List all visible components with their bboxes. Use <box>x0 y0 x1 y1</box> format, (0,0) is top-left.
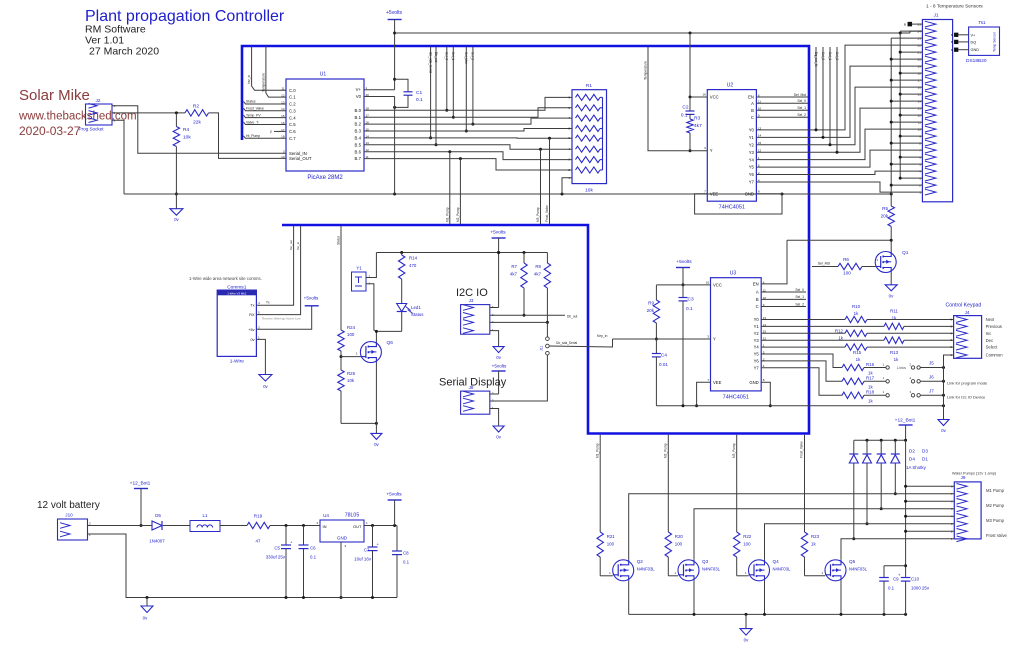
svg-text:I2c_sda_Serial: I2c_sda_Serial <box>556 341 577 345</box>
wire Q4 drain rail <box>765 524 955 560</box>
svg-text:GND: GND <box>749 380 758 385</box>
resistor R2 <box>185 104 209 126</box>
wire I2c_sda_Serial riser <box>428 47 432 139</box>
diode D1 <box>891 440 900 495</box>
svg-text:Links: Links <box>897 366 906 370</box>
resistor R13 <box>884 337 904 362</box>
wire J2 pin3 to ground rail <box>112 120 124 194</box>
svg-text:VEE: VEE <box>710 191 719 196</box>
svg-text:Sel_1: Sel_1 <box>451 52 455 60</box>
svg-text:J7: J7 <box>929 388 934 393</box>
svg-text:J8: J8 <box>469 385 474 390</box>
svg-text:1: 1 <box>821 571 823 575</box>
ground pumps <box>740 614 752 642</box>
svg-text:Y7: Y7 <box>749 180 755 185</box>
svg-text:47: 47 <box>256 539 261 544</box>
resistor R19 <box>247 514 270 544</box>
wire keypad row2 <box>904 325 954 327</box>
multiplexer U2 74HC4051 <box>702 83 761 211</box>
svg-text:7: 7 <box>707 378 709 382</box>
svg-text:B.1: B.1 <box>355 115 362 120</box>
resistor R22 <box>734 532 752 576</box>
svg-text:N4NF03L: N4NF03L <box>849 567 868 572</box>
wire U2 Sel_1 <box>756 106 808 110</box>
transistor Q5 <box>821 559 867 581</box>
svg-text:Previous: Previous <box>986 324 1002 329</box>
svg-text:R16: R16 <box>866 362 875 367</box>
svg-text:Y3: Y3 <box>749 150 755 155</box>
resistor R3 <box>687 114 702 152</box>
bus main <box>242 46 809 434</box>
svg-text:C: C <box>756 304 759 309</box>
svg-text:3: 3 <box>707 335 709 339</box>
svg-text:D5: D5 <box>155 513 161 518</box>
wire B.3 to R1 <box>364 129 572 132</box>
wire B.6 to R1 <box>364 150 572 159</box>
author website <box>18 111 137 123</box>
power +5volts i2c <box>490 230 506 308</box>
svg-text:Y: Y <box>710 148 713 153</box>
diode D2 <box>849 440 858 540</box>
svg-text:Db_out: Db_out <box>434 52 438 62</box>
svg-text:1: 1 <box>356 352 358 356</box>
svg-text:1A Shotky: 1A Shotky <box>906 465 927 470</box>
svg-text:0.1: 0.1 <box>310 555 317 560</box>
svg-text:1: 1 <box>609 571 611 575</box>
svg-text:100: 100 <box>607 542 615 547</box>
svg-text:R10: R10 <box>852 304 861 309</box>
wire U3 Y4 to keypad <box>761 346 845 348</box>
svg-text:B.6: B.6 <box>355 149 362 154</box>
svg-text:Status: Status <box>246 100 256 104</box>
svg-text:R11: R11 <box>890 309 898 314</box>
author Solar Mike <box>19 87 90 104</box>
wire Q3 drain rail <box>694 509 954 560</box>
svg-text:Serial_OUT: Serial_OUT <box>289 156 312 161</box>
svg-text:1: 1 <box>674 571 676 575</box>
svg-text:Inc: Inc <box>986 331 992 336</box>
power +12_Batt1 right <box>895 418 916 441</box>
wire bus label Sel_2 <box>835 47 839 154</box>
svg-text:C8: C8 <box>403 551 409 556</box>
svg-text:M1_Pump: M1_Pump <box>445 207 449 222</box>
wire Sel_1 riser <box>451 47 455 119</box>
svg-text:Y5: Y5 <box>749 165 755 170</box>
resistor R6 <box>812 257 875 276</box>
svg-text:J6: J6 <box>929 374 934 379</box>
diode D4 <box>863 440 872 525</box>
capacitor C3 <box>679 285 694 406</box>
wire bus label Dq_sel_M <box>814 47 818 131</box>
svg-text:Sel_1: Sel_1 <box>795 295 804 299</box>
svg-text:0.1: 0.1 <box>681 113 688 119</box>
svg-text:0v: 0v <box>263 384 268 389</box>
resistor R11 <box>884 309 904 330</box>
svg-text:Sel_Mst: Sel_Mst <box>794 93 806 97</box>
svg-text:0.1: 0.1 <box>686 306 693 312</box>
svg-text:M3 Pump: M3 Pump <box>986 518 1005 523</box>
svg-text:2: 2 <box>909 376 911 380</box>
svg-text:1: 1 <box>366 521 368 525</box>
resistor R5 <box>881 194 895 240</box>
svg-text:C5: C5 <box>274 546 280 551</box>
svg-text:B: B <box>751 108 754 113</box>
svg-text:R7: R7 <box>511 264 517 269</box>
wire keypad row1 <box>867 319 954 321</box>
label Control Keypad <box>946 303 982 309</box>
wire Y1 pin2 to +5 <box>366 253 376 278</box>
svg-text:B.4: B.4 <box>355 136 362 141</box>
svg-text:hsr_in: hsr_in <box>247 75 251 84</box>
jumper J11 <box>540 322 550 355</box>
connector J8 Serial Display <box>461 385 494 414</box>
capacitor C9 <box>879 566 905 615</box>
wire U3 Sel_0 <box>761 288 806 292</box>
svg-text:EN: EN <box>748 95 754 100</box>
resistor R20 <box>665 532 683 576</box>
svg-text:2: 2 <box>89 522 91 526</box>
svg-text:Sel_1: Sel_1 <box>828 52 832 60</box>
wire J2 pin2 to R2 <box>112 111 185 114</box>
svg-text:2: 2 <box>345 544 347 548</box>
svg-text:Next: Next <box>986 317 995 322</box>
wire C.1 from bus <box>261 46 286 97</box>
wire M1_Pump drop <box>445 152 450 224</box>
svg-text:Temperature: Temperature <box>643 61 647 80</box>
wire battery positive <box>88 525 153 527</box>
wire R19 to U4 <box>270 524 320 527</box>
label link i2c <box>947 395 986 400</box>
svg-text:C7: C7 <box>364 548 370 553</box>
svg-text:3: 3 <box>316 521 318 525</box>
svg-text:M3_Pump: M3_Pump <box>536 207 540 222</box>
svg-text:C: C <box>751 115 754 120</box>
svg-text:R12: R12 <box>835 329 844 334</box>
wire U3 Y2 to keypad <box>761 332 845 334</box>
wire Q6 source down <box>375 363 377 424</box>
resistor R15 <box>845 344 867 362</box>
subtitle date <box>89 46 159 58</box>
svg-text:Y4: Y4 <box>749 157 755 162</box>
svg-text:4k7: 4k7 <box>510 272 518 277</box>
svg-text:C.7: C.7 <box>289 136 296 141</box>
wire R2 to Serial_OUT <box>209 113 287 158</box>
label keypad Inc <box>986 331 992 336</box>
wire Frost_Valve drop <box>545 138 550 224</box>
svg-text:C10: C10 <box>911 577 920 582</box>
svg-text:RX: RX <box>249 313 255 317</box>
svg-text:R14: R14 <box>409 256 418 261</box>
wire Q4 source <box>764 581 766 615</box>
label Serial Display <box>439 377 507 389</box>
label temperature sensors <box>926 4 983 10</box>
svg-text:VCC: VCC <box>710 95 719 100</box>
diode D5 <box>149 513 165 544</box>
svg-text:1k: 1k <box>854 311 859 316</box>
wire U3 Y1 to keypad <box>761 325 884 327</box>
wire Comms1 Tx to bus <box>256 226 293 305</box>
svg-text:+5volts: +5volts <box>492 364 507 369</box>
svg-text:Link for program mode: Link for program mode <box>947 381 988 386</box>
svg-text:J2: J2 <box>96 98 101 103</box>
svg-text:Frost_Valve: Frost_Valve <box>800 441 804 458</box>
svg-text:B: B <box>951 48 953 52</box>
svg-text:+12_Bot1: +12_Bot1 <box>895 418 916 424</box>
svg-text:0.1: 0.1 <box>416 97 423 103</box>
ground under Q1 <box>885 273 897 299</box>
svg-text:Q2: Q2 <box>637 559 644 564</box>
label keypad Common <box>986 353 1004 358</box>
wire Valve_T- to C.5 <box>244 120 287 124</box>
svg-text:M1_Pump: M1_Pump <box>595 443 599 458</box>
svg-text:C.1: C.1 <box>289 95 296 100</box>
wire keypad row5 <box>867 346 954 348</box>
svg-text:10k: 10k <box>585 188 593 194</box>
svg-text:IN: IN <box>323 524 327 529</box>
svg-text:Temperature: Temperature <box>261 73 265 92</box>
wire U1 V+ <box>364 89 395 91</box>
wire keypad row3 <box>867 332 954 334</box>
svg-text:J1: J1 <box>934 13 939 18</box>
label I2C IO <box>456 287 488 299</box>
led Led1 Status <box>397 304 425 332</box>
svg-text:R18: R18 <box>866 390 875 395</box>
svg-text:C.6: C.6 <box>289 129 296 134</box>
wire Q5 source <box>840 581 842 615</box>
svg-text:J9: J9 <box>961 475 966 480</box>
svg-text:PicAxe 28M2: PicAxe 28M2 <box>307 175 343 181</box>
diode D3 <box>877 440 886 510</box>
svg-text:I2c_sda_Serial: I2c_sda_Serial <box>428 52 432 73</box>
label keypad Next <box>986 317 995 322</box>
svg-text:B.7: B.7 <box>355 156 362 161</box>
wire U2 Y5 to J1 <box>756 150 922 167</box>
power +5volts top <box>386 10 402 90</box>
wire B.2 to R1 <box>364 118 572 124</box>
wire U2 Sel_Mst <box>756 93 808 97</box>
svg-text:16: 16 <box>706 280 710 284</box>
svg-text:1: 1 <box>882 390 884 394</box>
ground under Q6 <box>371 423 382 447</box>
regulator U4 78L05 <box>316 513 368 549</box>
resistor R23 <box>801 532 825 576</box>
wire M3_Pump drop <box>536 149 541 224</box>
svg-text:J5: J5 <box>929 361 934 366</box>
transistor Q1 <box>875 240 909 272</box>
svg-text:74HC4051: 74HC4051 <box>723 395 749 401</box>
svg-text:R25: R25 <box>347 371 356 376</box>
svg-text:0v: 0v <box>496 355 501 360</box>
svg-text:8: 8 <box>763 378 765 382</box>
wire U1 V0 to ground <box>364 97 395 195</box>
svg-text:0.01: 0.01 <box>659 362 668 367</box>
resistor R4 <box>173 113 191 196</box>
svg-text:Temp_PV: Temp_PV <box>246 113 261 117</box>
label receive note <box>262 317 301 321</box>
svg-text:Y6: Y6 <box>754 359 760 364</box>
svg-text:Comms1: Comms1 <box>227 284 247 290</box>
svg-text:Y1: Y1 <box>754 324 760 329</box>
wire B.0 to R1 <box>364 97 572 110</box>
svg-text:Sel_0: Sel_0 <box>821 52 825 60</box>
svg-text:20k: 20k <box>647 308 655 313</box>
wire M3_Pump gate drop <box>732 435 737 532</box>
capacitor C4 <box>652 339 668 406</box>
svg-text:0v: 0v <box>941 428 946 433</box>
ground comms 0v <box>256 339 272 389</box>
svg-text:1k: 1k <box>856 357 861 362</box>
svg-text:Y: Y <box>713 337 716 342</box>
wire U2 Y3 to J1 <box>756 108 922 152</box>
wire U2 Sel_2 <box>756 113 808 117</box>
connector J9 Water Pumps <box>951 475 981 542</box>
capacitor C8 <box>392 526 410 598</box>
power +12_Batt1 left <box>130 481 151 528</box>
connector J1 temperature sensors <box>918 13 953 202</box>
svg-text:27 March 2020: 27 March 2020 <box>89 46 159 58</box>
svg-text:R23: R23 <box>811 534 820 539</box>
svg-text:DQ: DQ <box>971 40 977 44</box>
svg-text:Y2: Y2 <box>749 142 755 147</box>
svg-text:10k: 10k <box>347 378 355 383</box>
svg-text:R4: R4 <box>183 127 189 133</box>
wire Q2 source <box>628 581 630 615</box>
svg-text:0v: 0v <box>496 435 501 440</box>
resistor R16 <box>842 362 875 376</box>
svg-text:B: B <box>904 22 906 26</box>
svg-text:C.4: C.4 <box>289 115 296 120</box>
svg-text:3: 3 <box>258 325 260 329</box>
wire U3 Y6 jog <box>761 361 842 381</box>
svg-text:100: 100 <box>743 542 751 547</box>
svg-text:Sel_1: Sel_1 <box>797 106 806 110</box>
svg-text:L1: L1 <box>202 513 208 518</box>
wire Y1 pin1 to Q6 drain <box>366 284 376 332</box>
svg-text:D2: D2 <box>909 449 915 454</box>
capacitor C2 <box>681 97 695 119</box>
wire U3 Sel_1 <box>761 295 806 299</box>
svg-text:R6: R6 <box>843 257 849 262</box>
wire Q3 source <box>693 581 695 615</box>
svg-text:R8: R8 <box>535 264 541 269</box>
wire M2_Pump drop <box>456 159 460 224</box>
resistor R12 <box>835 329 867 341</box>
svg-text:R1: R1 <box>586 83 592 89</box>
svg-text:20k: 20k <box>881 214 889 219</box>
svg-text:Sel_Mst: Sel_Mst <box>818 261 830 265</box>
svg-text:+5volts: +5volts <box>304 296 319 301</box>
wire gnd sensor bus <box>890 38 923 194</box>
wire J8 pin3 +5 <box>490 393 499 395</box>
svg-text:Y1: Y1 <box>356 266 362 271</box>
svg-text:Dec: Dec <box>986 338 993 343</box>
wire Key_in to U3 Y <box>597 334 711 339</box>
svg-text:R9: R9 <box>648 301 654 306</box>
svg-text:M2_Pump: M2_Pump <box>456 207 460 222</box>
svg-text:3: 3 <box>909 390 911 394</box>
wire U3 Y0 to keypad <box>761 319 845 321</box>
resistor R18 <box>842 390 875 404</box>
svg-text:1000 25v: 1000 25v <box>911 586 930 591</box>
transistor Q4 <box>745 559 791 581</box>
svg-text:B.2: B.2 <box>355 122 362 127</box>
svg-text:Y0: Y0 <box>754 317 760 322</box>
subtitle RM Software <box>85 24 146 36</box>
svg-text:12 volt battery: 12 volt battery <box>37 500 100 511</box>
svg-text:Key_in: Key_in <box>597 334 607 338</box>
svg-text:1: 1 <box>258 335 260 339</box>
svg-text:0.1: 0.1 <box>403 560 410 565</box>
svg-text:R24: R24 <box>347 325 356 330</box>
svg-text:Valve_T-: Valve_T- <box>246 120 259 124</box>
wire Sel_2 riser <box>471 47 475 126</box>
svg-text:R5: R5 <box>882 206 888 211</box>
svg-text:A: A <box>756 290 759 295</box>
svg-text:1 - 8 Temperature Sensors: 1 - 8 Temperature Sensors <box>926 4 983 10</box>
svg-text:8: 8 <box>758 189 760 193</box>
svg-text:R13: R13 <box>890 350 899 355</box>
svg-text:R3: R3 <box>694 116 700 122</box>
wire Sel_Mst riser <box>464 47 468 133</box>
label keypad Dec <box>986 338 993 343</box>
svg-text:Y7: Y7 <box>754 365 760 370</box>
svg-text:Sel_2: Sel_2 <box>795 302 804 306</box>
wire U2 VCC <box>689 33 708 99</box>
wire U3 VCC rail <box>656 284 710 286</box>
wire U3 Y5 jog <box>761 354 842 368</box>
svg-text:VCC: VCC <box>713 282 722 287</box>
transistor Q6 <box>341 340 393 363</box>
svg-text:U3: U3 <box>730 271 737 277</box>
svg-text:Sel_0: Sel_0 <box>795 288 804 292</box>
svg-text:1N4007: 1N4007 <box>149 539 165 544</box>
inductor L1 <box>190 513 220 532</box>
svg-text:Solar Mike: Solar Mike <box>19 87 90 104</box>
svg-text:+: + <box>377 542 380 547</box>
svg-text:+12_Bot1: +12_Bot1 <box>130 481 151 487</box>
wire U3 EN to Q1 <box>761 240 787 284</box>
wire Frost_Valve gate drop <box>800 435 805 532</box>
wire keypad row4 <box>904 339 954 341</box>
capacitor C1 <box>393 79 423 109</box>
wire U4 out <box>364 524 397 527</box>
svg-text:0v: 0v <box>250 338 254 342</box>
label keypad Previous <box>986 324 1002 329</box>
svg-text:U1: U1 <box>320 72 327 78</box>
wire R1 common to rail <box>562 178 572 194</box>
wire U3 Y3 to keypad <box>761 339 884 341</box>
svg-text:Link for I2c IO Device: Link for I2c IO Device <box>947 395 986 400</box>
svg-text:1: 1 <box>882 376 884 380</box>
wire ground rail 0v <box>124 193 893 196</box>
wire L1 to R19 <box>220 525 247 527</box>
wire B.1 to R1 <box>364 108 572 117</box>
svg-text:4k7: 4k7 <box>694 123 702 129</box>
title text <box>85 8 285 25</box>
svg-text:1: 1 <box>745 571 747 575</box>
svg-text:Select: Select <box>986 345 998 350</box>
resistor R17 <box>842 376 875 390</box>
net stub J1 pin25 <box>904 22 922 26</box>
svg-text:10k: 10k <box>183 135 191 141</box>
wire Status to C.2 <box>244 100 287 104</box>
svg-text:B: B <box>951 40 953 44</box>
label water pumps <box>952 472 997 476</box>
svg-text:OUT: OUT <box>353 524 362 529</box>
capacitor C10 <box>898 573 930 615</box>
svg-text:22k: 22k <box>193 120 201 126</box>
power +5volts comms <box>256 296 319 330</box>
